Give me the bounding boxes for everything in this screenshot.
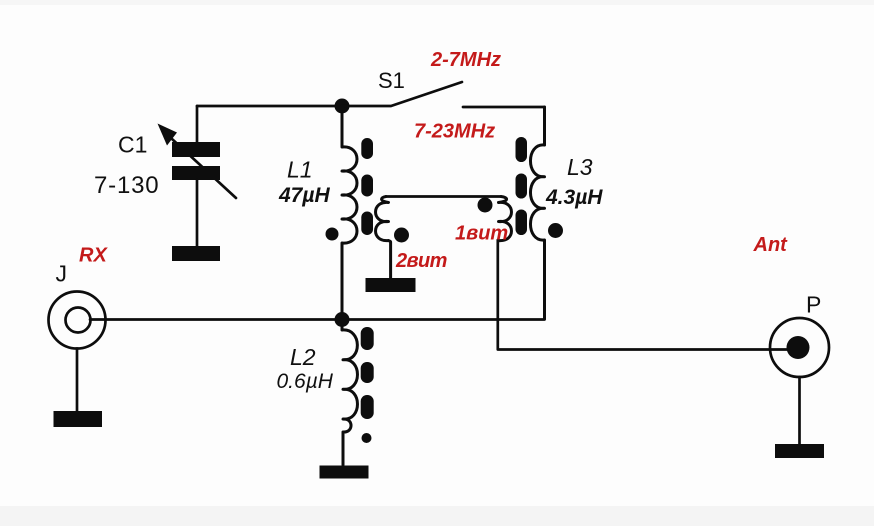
capacitor C1 bottom lead <box>196 180 199 246</box>
wire: J ground lead <box>76 349 79 412</box>
polarity dot of 2-turn link <box>394 228 409 243</box>
inductor L1 main winding <box>342 106 357 313</box>
connector J (RX jack) outer ring <box>49 292 106 349</box>
winding: 2-turn link on L1 core <box>376 197 391 279</box>
inductor L3 main winding <box>530 107 544 319</box>
wire: 1-turn link bottom to connector P <box>498 240 798 350</box>
svg-text:0.6µH: 0.6µH <box>277 370 334 393</box>
wire: top rail from C1 to node A <box>197 105 342 108</box>
polarity dot of L1 <box>326 228 339 241</box>
svg-text:1вum: 1вum <box>455 223 508 245</box>
polarity dot of L3 <box>548 223 563 238</box>
wire: switch throw contact to L3 top <box>463 107 545 145</box>
node B (junction of bottom rail and L1/L2) <box>335 312 350 327</box>
svg-text:47µH: 47µH <box>278 184 330 207</box>
svg-text:Ant: Ant <box>753 234 789 256</box>
connector P (antenna jack) outer ring <box>770 318 829 377</box>
svg-text:2-7MHz: 2-7MHz <box>430 49 501 71</box>
svg-text:L2: L2 <box>290 344 316 370</box>
svg-text:C1: C1 <box>118 132 147 158</box>
connector J center pin <box>66 308 91 333</box>
capacitor C1 variable arrow <box>172 139 236 198</box>
ground under J <box>54 411 103 427</box>
ground under P <box>775 444 824 458</box>
capacitor C1 (variable) top lead <box>196 106 199 142</box>
connector P center pin (filled) <box>787 336 810 359</box>
svg-text:L3: L3 <box>567 154 593 180</box>
ground under L2 <box>320 466 369 479</box>
svg-text:2вum: 2вum <box>395 250 447 272</box>
wire: P ground lead <box>798 377 801 444</box>
transformer core of L3 (ferrite bars) <box>516 137 528 162</box>
svg-text:7-130: 7-130 <box>94 172 159 199</box>
switch S1 (pole wire and blade) <box>342 82 462 106</box>
inductor L2 winding <box>342 320 357 466</box>
polarity dot of L2 <box>362 433 372 443</box>
svg-text:7-23MHz: 7-23MHz <box>414 121 495 143</box>
capacitor C1 plates <box>172 142 220 157</box>
node A (junction of top rail, L1 and switch pole) <box>335 99 350 114</box>
svg-text:RX: RX <box>79 245 108 267</box>
wire: connector J to L3 bottom (bottom rail) <box>90 318 545 321</box>
svg-text:4.3µH: 4.3µH <box>545 186 603 209</box>
wire: 2-turn link top to 1-turn link top <box>386 195 501 198</box>
ground under 2-turn link <box>366 278 416 292</box>
svg-text:P: P <box>806 292 821 318</box>
svg-text:L1: L1 <box>287 157 313 183</box>
polarity dot of 1-turn link <box>478 198 493 213</box>
core of L2 (ferrite bars) <box>361 327 374 350</box>
svg-text:S1: S1 <box>378 68 405 93</box>
ground under C1 <box>172 246 220 261</box>
winding: 1-turn link on L3 core <box>499 197 512 242</box>
svg-text:J: J <box>56 261 68 287</box>
transformer core of L1 (ferrite bars) <box>361 138 373 159</box>
